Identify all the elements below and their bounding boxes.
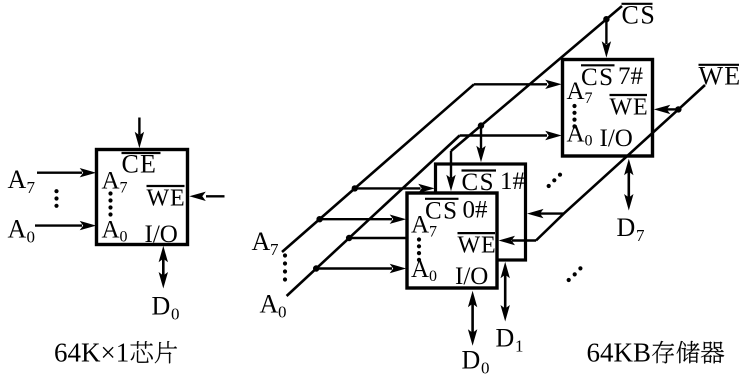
svg-text:I/O: I/O: [145, 221, 178, 248]
wire A7 arrow into 7#: [474, 83, 547, 85]
svg-text:A: A: [567, 78, 585, 105]
chip U0 box (64Kx1 chip): [97, 150, 188, 245]
svg-text:7: 7: [270, 240, 279, 259]
wire CS drop into 1#: [480, 126, 482, 149]
svg-text:D: D: [496, 324, 515, 353]
ellipsis dots between chips 1# and 7#: [547, 184, 551, 188]
svg-text:A: A: [411, 256, 429, 283]
junction dot A7 to 0#: [316, 216, 322, 222]
pin label CS of chip 0#: [425, 198, 459, 200]
net label CS (top): [622, 3, 653, 5]
svg-text:A: A: [8, 215, 27, 244]
dots between A7 and A0 inside 0#: [417, 237, 421, 241]
svg-text:CS: CS: [425, 197, 459, 224]
svg-text:0: 0: [27, 228, 36, 247]
svg-text:7: 7: [429, 223, 437, 240]
svg-text:WE: WE: [458, 233, 497, 259]
svg-text:7: 7: [27, 178, 36, 197]
svg-text:0: 0: [120, 229, 128, 246]
A7 bus line (diagonal): [282, 84, 474, 252]
svg-text:WE: WE: [147, 186, 186, 212]
svg-text:CS: CS: [622, 0, 657, 29]
svg-text:CE: CE: [122, 150, 158, 179]
svg-text:0: 0: [481, 359, 490, 376]
svg-text:0: 0: [585, 133, 593, 150]
wire A0 arrow into 0#: [316, 267, 392, 269]
junction dot WE to 7#: [675, 106, 681, 112]
svg-text:0: 0: [278, 303, 287, 322]
net label WE (right): [699, 64, 740, 66]
svg-text:0: 0: [171, 305, 180, 324]
WE bus line (diagonal): [536, 85, 705, 241]
svg-text:7: 7: [636, 226, 645, 245]
wire CE input arrow into U0 top: [138, 118, 140, 136]
pin label WE of chip 0#: [458, 232, 496, 234]
chip 1# box (behind): [436, 164, 526, 260]
svg-text:A: A: [260, 290, 279, 319]
junction dot A0 to 0#: [313, 265, 319, 271]
svg-text:D: D: [462, 346, 481, 375]
pin label WE of chip 7#: [610, 94, 648, 96]
pin label CS of chip 7#: [581, 64, 615, 66]
junction dot CS to 7#: [603, 16, 609, 22]
junction dot A7 to 1#: [352, 185, 358, 191]
svg-text:0: 0: [429, 268, 437, 285]
svg-text:I/O: I/O: [455, 263, 488, 290]
svg-text:A: A: [567, 121, 585, 148]
chip 7# box (back top): [563, 60, 653, 157]
svg-text:WE: WE: [610, 95, 649, 121]
chip 0# box (front): [407, 193, 497, 288]
wire CS drop into 0#: [450, 151, 452, 178]
svg-text:D: D: [617, 213, 636, 242]
svg-text:64KB: 64KB: [587, 338, 652, 368]
wire I/O to D0 double arrow (chip 0#): [471, 301, 474, 335]
svg-text:7: 7: [120, 180, 128, 197]
svg-text:A: A: [252, 227, 271, 256]
svg-text:A: A: [102, 168, 120, 195]
svg-text:1: 1: [515, 337, 524, 356]
wire WE arrow into 0#: [512, 239, 536, 241]
wire WE arrow into 7#: [666, 108, 678, 110]
junction dot CS to 1#: [478, 122, 484, 128]
pin label WE (active low) of U0: [147, 185, 185, 187]
svg-text:I/O: I/O: [600, 125, 633, 152]
wire A0 input arrow into U0: [35, 224, 82, 226]
A0 bus line (diagonal): [287, 136, 460, 297]
ellipsis dots between D1 and D7: [567, 278, 571, 282]
wire A7 arrow into 1#: [355, 187, 421, 189]
wire A0 to 1# (hidden behind 0#): [349, 237, 408, 239]
wire I/O to D1 double arrow (chip 1#): [504, 272, 507, 311]
svg-text:7: 7: [585, 90, 593, 107]
wire A0 arrow into 7#: [460, 134, 547, 136]
svg-text:D: D: [152, 292, 171, 321]
wire I/O to D0 double arrow (U0): [162, 256, 165, 278]
wire A7 input arrow into U0: [37, 171, 82, 173]
svg-text:A: A: [411, 211, 429, 238]
dots between A7 and A0 labels (left): [54, 189, 58, 193]
svg-text:64K×1: 64K×1: [54, 338, 129, 368]
svg-text:1#: 1#: [500, 168, 526, 195]
wire CS drop into 7#: [605, 19, 607, 44]
dots between A7 and A0 inside U0: [108, 191, 112, 195]
svg-text:A: A: [8, 165, 27, 194]
svg-text:A: A: [102, 217, 120, 244]
pin label CS of chip 1#: [462, 169, 497, 171]
svg-text:7#: 7#: [618, 63, 644, 90]
pin label CE (active low) of U0: [122, 152, 161, 154]
wire WE arrow into 1#: [540, 212, 564, 214]
wire I/O to D7 double arrow (chip 7#): [627, 169, 630, 200]
wire WE input arrow into U0 right: [206, 195, 225, 197]
svg-text:CS: CS: [581, 64, 615, 91]
wire A7 arrow into 0#: [320, 218, 392, 220]
svg-text:0#: 0#: [463, 196, 489, 223]
CS bus line (diagonal): [451, 6, 622, 151]
junction dot A0 to 1#: [346, 235, 352, 241]
dots between A7 and A0 inside 7#: [572, 104, 576, 108]
dots between A7 and A0 labels (right): [283, 253, 287, 257]
